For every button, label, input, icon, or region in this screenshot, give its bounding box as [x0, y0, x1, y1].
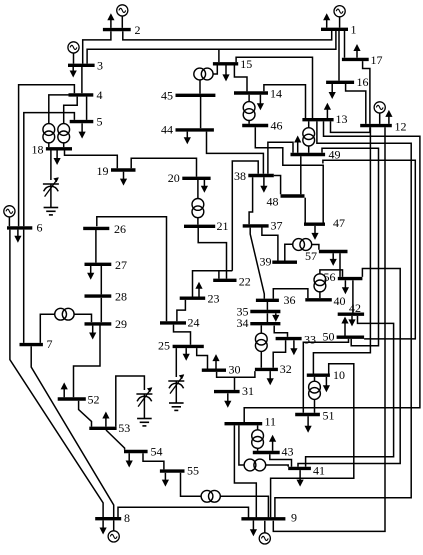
load arrow load 41 — [297, 470, 304, 487]
wire line 37-38 — [249, 177, 253, 224]
load arrow load 31 — [224, 393, 231, 408]
load arrow load 10 — [323, 377, 330, 392]
wire shunt53 loop — [116, 376, 145, 427]
wire line 4-18 left lower — [48, 143, 50, 147]
bus 27 — [85, 258, 128, 272]
wire trafo 11-43 bottom stub — [257, 448, 259, 451]
svg-text:41: 41 — [313, 464, 325, 478]
svg-text:16: 16 — [357, 75, 369, 89]
bus 56 — [324, 270, 363, 284]
bus 38 — [234, 169, 274, 183]
transformer T 10-51 — [309, 381, 321, 399]
load arrow load 9 — [250, 521, 257, 537]
svg-text:21: 21 — [217, 219, 229, 233]
bus 34 — [237, 316, 281, 330]
bus 9 — [241, 511, 297, 525]
wire line 9-55 left lead — [181, 473, 202, 497]
svg-text:44: 44 — [161, 123, 173, 137]
bus 14 — [234, 87, 282, 101]
svg-text:3: 3 — [97, 59, 103, 73]
svg-text:55: 55 — [187, 464, 199, 478]
wire line 6-7 — [23, 230, 25, 343]
wire line 37-39 — [262, 228, 278, 261]
svg-text:14: 14 — [270, 87, 282, 101]
svg-text:40: 40 — [334, 294, 346, 308]
generator G6 — [4, 206, 15, 227]
bus 35 — [237, 305, 281, 319]
transformer T 11-43 — [252, 430, 264, 448]
wire line 7-29 right lead — [74, 314, 91, 322]
bus 50 — [323, 330, 365, 344]
generator G12 — [374, 102, 385, 124]
wire line 12-16 — [346, 84, 366, 124]
wire line 19-20 — [131, 158, 196, 176]
wire line 11-13 — [244, 121, 420, 422]
load arrow load 15 — [222, 66, 229, 82]
transformer T2 4-18 — [58, 124, 70, 143]
bus 53 — [89, 421, 130, 435]
svg-text:43: 43 — [282, 444, 294, 458]
svg-text:2: 2 — [135, 23, 141, 37]
wire line 3-15 / 1-15 — [87, 31, 336, 64]
wire trafo 14-46 bottom stub — [248, 120, 250, 123]
wire stub 15 junction — [218, 49, 220, 62]
load arrow load 56 — [342, 280, 349, 294]
wire line 28-29 — [100, 298, 102, 322]
bus 48 — [267, 195, 305, 209]
load arrow load 38 — [260, 177, 267, 193]
arrow gen arrow 1 — [323, 13, 330, 27]
shunt bus 18 shunt — [43, 177, 59, 215]
svg-text:17: 17 — [371, 53, 383, 67]
bus 22 — [213, 275, 251, 289]
load arrow load 51 — [305, 416, 312, 433]
wire line 32-33 — [273, 340, 285, 367]
wire trafo 39-57 left lead — [285, 244, 293, 260]
wire line 46-47 — [255, 127, 323, 222]
wire line 26-27 — [95, 230, 97, 263]
wire line 10-12 — [313, 127, 370, 373]
bus 12 — [360, 120, 406, 134]
wire line 8-9 — [118, 507, 249, 517]
wire line 57-56 — [339, 253, 341, 277]
load arrow load 20 — [201, 180, 208, 193]
wire line 50-51 — [303, 339, 348, 413]
svg-text:4: 4 — [97, 88, 103, 102]
wire line 49-50 — [322, 148, 379, 345]
svg-text:33: 33 — [304, 332, 316, 346]
svg-text:13: 13 — [336, 112, 348, 126]
load arrow load 27 — [87, 266, 94, 280]
wire line 9-10 — [271, 364, 354, 518]
svg-text:5: 5 — [97, 115, 103, 129]
wire line 44-45 — [200, 97, 202, 128]
wire line 4-18 left feed — [49, 95, 69, 124]
load arrow load 29 — [89, 326, 96, 340]
svg-text:51: 51 — [323, 409, 335, 423]
wire line 27-28 — [100, 265, 102, 294]
transformer T 40-56 — [314, 274, 326, 292]
bus 55 — [160, 464, 199, 478]
wire trafo 10-51 bottom stub — [314, 399, 316, 413]
generator G2 — [117, 5, 128, 28]
svg-text:22: 22 — [239, 275, 251, 289]
bus 8 — [95, 511, 130, 525]
load arrow load 32 — [267, 371, 274, 385]
wire line 29-52 — [74, 326, 101, 398]
bus 46 — [242, 118, 282, 132]
arrow arrow 53 — [102, 412, 109, 427]
load arrow load 57 — [330, 253, 337, 266]
svg-text:30: 30 — [229, 363, 241, 377]
svg-text:11: 11 — [265, 415, 277, 429]
svg-text:12: 12 — [395, 120, 407, 134]
shunt bus 25 shunt — [168, 374, 184, 410]
wire line 38-49 — [268, 142, 293, 174]
load arrow load 54 — [126, 453, 133, 467]
wire line 56-41 — [298, 269, 400, 467]
svg-text:9: 9 — [291, 511, 297, 525]
wire line 33-34 — [274, 326, 287, 337]
load arrow load 16 — [329, 84, 336, 99]
wire trafo 11-41 right lead — [266, 465, 289, 467]
arrow arrow 52 — [61, 382, 68, 397]
svg-text:36: 36 — [284, 293, 296, 307]
transformer T 39-57 — [293, 239, 312, 251]
wire line 9-11 — [234, 425, 256, 517]
bus 18 — [32, 143, 73, 157]
svg-text:27: 27 — [115, 258, 127, 272]
svg-text:19: 19 — [97, 164, 109, 178]
svg-text:15: 15 — [240, 57, 252, 71]
arrow arrow 30 — [212, 354, 219, 368]
wire line 9-55 right lead — [220, 496, 268, 517]
wire line 13-14 — [264, 85, 306, 118]
wire line 13-15 — [236, 57, 312, 118]
arrow arrow 43 — [269, 435, 276, 451]
svg-text:1: 1 — [351, 23, 357, 37]
wire drop to 22 — [218, 271, 220, 279]
bus 52 — [58, 393, 100, 407]
bus 20 — [168, 171, 211, 185]
wire line 35-36 — [266, 302, 268, 310]
wire line 7-29 left lead — [40, 314, 54, 343]
transformer T 15-45 — [194, 68, 213, 80]
transformer T 9-55 — [201, 490, 220, 502]
bus 6 — [7, 221, 43, 235]
bus 11 — [225, 415, 277, 429]
bus 31 — [214, 384, 254, 398]
load arrow load 6 — [14, 230, 21, 243]
svg-text:46: 46 — [271, 118, 283, 132]
svg-text:45: 45 — [161, 89, 173, 103]
wire line 30-31 / 31-32 — [217, 371, 255, 377]
bus 29 — [85, 317, 128, 331]
transformer T 34-32 — [255, 333, 267, 351]
wire line 12-13 — [331, 121, 370, 132]
load arrow load 8 — [100, 520, 107, 534]
wire trafo 15-45 bus45 lead — [199, 80, 201, 94]
wire line 23-24 — [177, 300, 186, 321]
svg-text:7: 7 — [47, 337, 53, 351]
wire line 41-43 — [270, 454, 292, 467]
svg-text:56: 56 — [324, 270, 336, 284]
wire trafo 40-56 bottom stub — [319, 292, 321, 299]
wire line 47-50 bridge — [323, 160, 415, 339]
wire line 21-22 — [198, 228, 226, 279]
arrow gen arrow 12 — [385, 110, 392, 124]
bus 15 — [213, 57, 252, 71]
svg-text:29: 29 — [115, 317, 127, 331]
load arrow load 33 — [290, 340, 297, 355]
load arrow load 19 — [120, 172, 127, 186]
wire line 2-3 — [83, 31, 111, 63]
svg-text:32: 32 — [280, 362, 292, 376]
svg-text:23: 23 — [208, 292, 220, 306]
shunt bus 53 shunt — [136, 387, 152, 426]
svg-text:49: 49 — [329, 148, 341, 162]
generator G9 — [259, 521, 270, 544]
load arrow load 14 — [257, 95, 264, 111]
bus 33 — [276, 332, 316, 346]
wire line 38-48 — [274, 176, 281, 195]
arrow arrow 17 — [353, 44, 360, 58]
bus 30 — [202, 363, 241, 377]
wire trafo 20-21 bottom stub — [197, 218, 199, 225]
wire trafo 13-49 top stub — [308, 121, 310, 128]
wire line 22-23 — [193, 271, 233, 297]
svg-text:24: 24 — [188, 316, 200, 330]
bus 5 — [70, 115, 103, 129]
wire line 36-40 — [273, 289, 308, 299]
load arrow load 55 — [162, 473, 169, 487]
wire line 3-4 — [81, 67, 83, 93]
bus 16 — [326, 75, 368, 89]
transformer T1 4-18 — [43, 124, 55, 143]
bus 54 — [124, 444, 163, 458]
transformer T 20-21 — [192, 199, 204, 218]
bus 45 — [161, 89, 215, 103]
arrow arrow 23 — [195, 282, 202, 297]
wire line 9-12 — [273, 127, 385, 531]
bus 37 — [243, 218, 283, 232]
load arrow load 42 — [348, 316, 355, 327]
load arrow load 25 — [183, 348, 190, 361]
wire line 24-25 — [174, 325, 191, 345]
bus 49 — [291, 148, 341, 162]
arrow arrow 50 — [341, 317, 348, 336]
wire line 1-16 — [338, 31, 340, 81]
load arrow load 47 — [311, 226, 318, 240]
wire line 4-6 — [19, 85, 75, 226]
wire line 14-15 — [234, 66, 247, 92]
bus 28 — [85, 290, 128, 304]
svg-text:48: 48 — [267, 195, 279, 209]
wire trafo 11-43 top stub — [257, 425, 259, 430]
svg-text:8: 8 — [124, 511, 130, 525]
svg-text:35: 35 — [237, 305, 249, 319]
bus 40 — [305, 294, 345, 308]
wire line 38-44 — [207, 132, 264, 174]
svg-text:26: 26 — [114, 222, 126, 236]
svg-text:31: 31 — [242, 384, 254, 398]
svg-text:39: 39 — [260, 255, 272, 269]
bus 26 — [83, 222, 126, 236]
wire line 24-26 — [97, 217, 167, 321]
svg-text:42: 42 — [349, 301, 361, 315]
bus 21 — [184, 219, 229, 233]
bus 43 — [253, 444, 294, 458]
bus 13 — [302, 112, 347, 126]
bus 24 — [160, 316, 200, 330]
wire line 9-13 — [275, 121, 411, 517]
wire line 34-35 — [266, 313, 268, 322]
wire shunt25 stub — [175, 348, 177, 377]
arrow gen arrow 2 — [107, 13, 114, 28]
svg-text:37: 37 — [271, 218, 283, 232]
arrow arrow 13 — [324, 103, 331, 118]
wire trafo 20-21 top stub — [197, 180, 199, 199]
wire line 18-19 — [65, 151, 118, 169]
arrow arrow 49 — [294, 136, 301, 153]
wire line 47-48 — [304, 198, 306, 223]
wire line 6-8 — [10, 230, 103, 517]
wire shunt18 stub — [50, 151, 52, 181]
transformer T 7-29 — [55, 308, 74, 320]
bus 4 — [69, 88, 103, 102]
svg-text:50: 50 — [323, 330, 335, 344]
wire line 25-30 — [197, 348, 208, 368]
load arrow load 18 — [54, 151, 61, 166]
bus 23 — [180, 292, 220, 306]
wire trafo 34-32 bottom stub — [260, 351, 262, 367]
bus 25 — [158, 339, 204, 353]
bus 57 — [305, 249, 348, 263]
bus 41 — [288, 464, 325, 478]
wire trafo 39-57 right lead — [312, 245, 319, 250]
svg-text:20: 20 — [168, 171, 180, 185]
transformer T 13-49 — [303, 128, 315, 146]
svg-text:53: 53 — [118, 421, 130, 435]
generator G1 — [334, 6, 345, 28]
svg-text:18: 18 — [32, 143, 44, 157]
wire line 12-17 — [363, 61, 370, 124]
bus 19 — [97, 164, 136, 178]
wire line 54-55 — [143, 453, 164, 469]
wire trafo 40-56 top lead — [320, 270, 343, 277]
transformer T 14-46 — [243, 102, 255, 121]
bus 10 — [307, 368, 345, 382]
wire trafo 15-45 bus15 lead — [213, 66, 217, 75]
generator G8 — [108, 520, 119, 542]
wire line 22-38 — [232, 161, 258, 271]
wire line 1-17 — [344, 31, 346, 58]
wire line 4-18 right feed — [64, 97, 77, 124]
wire trafo 11-41 left lead — [239, 425, 244, 465]
wire line 41-42 — [306, 316, 394, 467]
wire line 48-49 — [300, 156, 302, 194]
wire line 52-53 — [79, 401, 92, 427]
svg-text:38: 38 — [234, 169, 246, 183]
bus 36 — [256, 293, 296, 307]
bus 47 — [304, 216, 345, 230]
wire line 36-37 — [250, 228, 264, 299]
bus 2 — [103, 23, 141, 37]
load arrow load 35 — [272, 313, 279, 322]
wire drop to 31 — [234, 377, 236, 390]
wire line 5-6 — [24, 113, 75, 227]
svg-text:6: 6 — [37, 221, 43, 235]
load arrow load 5 — [79, 123, 86, 138]
wire trafo 34-32 top stub — [260, 325, 262, 333]
bus 17 — [342, 53, 383, 67]
bus 44 — [161, 123, 214, 137]
svg-text:47: 47 — [333, 216, 345, 230]
wire line 4-18 right lower — [63, 143, 65, 147]
svg-text:25: 25 — [158, 339, 170, 353]
svg-text:57: 57 — [305, 249, 317, 263]
wire line 53-54 — [106, 430, 125, 450]
bus 39 — [260, 255, 298, 269]
bus 51 — [295, 409, 334, 423]
wire line 7-8 — [31, 346, 114, 517]
svg-text:10: 10 — [333, 368, 345, 382]
bus 7 — [20, 337, 53, 351]
bus 42 — [338, 301, 364, 315]
wire trafo 10-51 top stub — [314, 377, 316, 381]
bus 1 — [321, 23, 357, 37]
svg-text:52: 52 — [88, 393, 100, 407]
load arrow load 3 — [70, 67, 77, 78]
wire line 4-5 — [86, 97, 88, 120]
wire line 1-2 — [123, 31, 332, 40]
wire trafo 14-46 top stub — [248, 95, 250, 102]
wire line 56-42 — [352, 280, 354, 312]
bus 32 — [255, 362, 292, 376]
wire trafo 13-49 bottom stub — [308, 146, 310, 153]
svg-text:54: 54 — [151, 444, 163, 458]
load arrow load 44 — [184, 132, 191, 145]
svg-text:28: 28 — [115, 290, 127, 304]
bus 3 — [68, 59, 103, 73]
transformer T 11-41 — [244, 459, 266, 471]
generator G3 — [68, 42, 79, 64]
